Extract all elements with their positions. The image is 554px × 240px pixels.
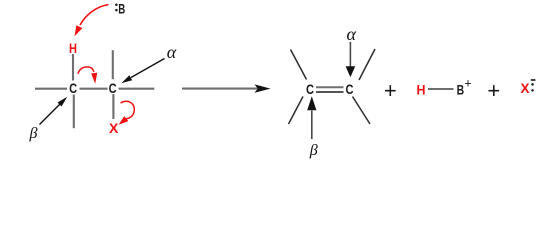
svg-text:H: H xyxy=(69,40,77,56)
svg-text:+: + xyxy=(464,76,471,90)
bond left of beta carbon xyxy=(35,88,67,90)
svg-text:+: + xyxy=(487,78,500,103)
superscript minus on X xyxy=(531,79,536,81)
base :B lone pair dots xyxy=(115,3,118,11)
pointer arrow down to alpha carbon xyxy=(346,42,356,77)
svg-text:α: α xyxy=(167,42,177,62)
pointer arrow alpha to C xyxy=(121,59,164,84)
product double bond C=C top line xyxy=(316,86,344,88)
curved arrow from C-H bond to C-C bond xyxy=(78,67,97,84)
product bond down-left xyxy=(289,97,304,125)
curved arrow from :B to H xyxy=(75,5,109,37)
svg-text:B: B xyxy=(457,82,465,98)
svg-text:C: C xyxy=(69,80,77,96)
svg-text:β: β xyxy=(309,142,318,159)
reaction arrow xyxy=(182,84,271,92)
bond H-C xyxy=(72,54,74,81)
lone pair dots on X xyxy=(531,83,534,92)
svg-text:β: β xyxy=(29,125,38,142)
product bond up-left xyxy=(291,50,307,80)
svg-text:C: C xyxy=(346,81,354,97)
svg-text:C: C xyxy=(109,80,117,96)
svg-text:X: X xyxy=(109,120,119,136)
bond H-B xyxy=(428,88,454,90)
bond right of alpha carbon xyxy=(119,88,155,90)
svg-text:α: α xyxy=(346,24,356,44)
svg-text:B: B xyxy=(118,1,125,17)
svg-text:X: X xyxy=(521,80,531,96)
svg-text:C: C xyxy=(306,81,314,97)
bond C-X xyxy=(112,94,114,119)
svg-text:+: + xyxy=(384,78,397,103)
curved arrow from C-X bond to X xyxy=(119,101,135,124)
bond above alpha carbon xyxy=(112,50,114,79)
product double bond C=C bottom line xyxy=(316,91,344,93)
svg-text:H: H xyxy=(417,82,426,98)
bond C-C xyxy=(80,88,108,90)
product bond up-right xyxy=(359,49,375,80)
pointer arrow beta to C xyxy=(40,97,68,125)
pointer arrow up to beta carbon xyxy=(307,96,316,139)
product bond down-right xyxy=(353,97,371,125)
bond below beta carbon xyxy=(73,95,75,129)
